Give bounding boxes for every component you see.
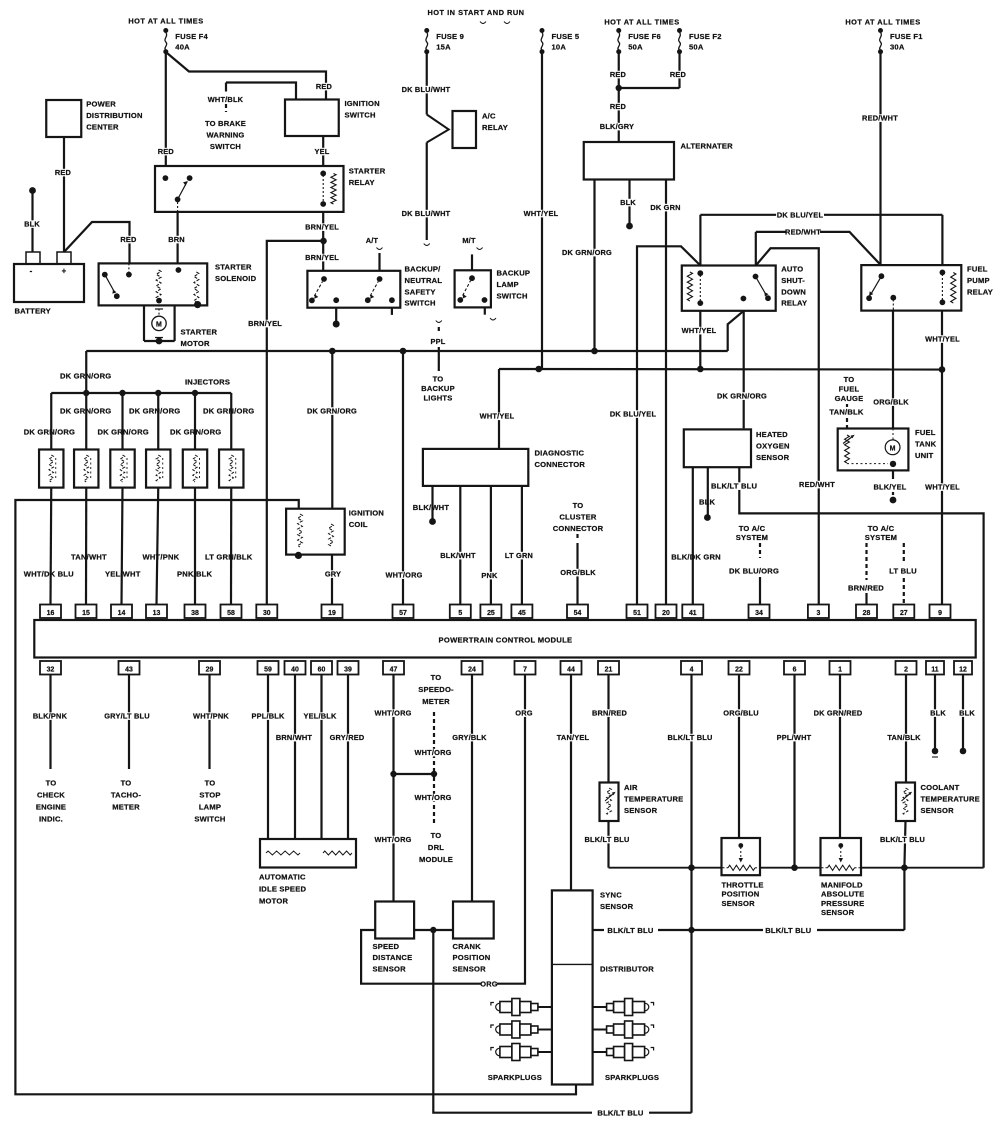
svg-text:DRL: DRL — [428, 843, 444, 852]
svg-text:POSITION: POSITION — [722, 890, 760, 899]
fuse F2 50A — [677, 28, 722, 54]
relay A/C RELAY — [453, 111, 509, 148]
svg-text:SPARKPLUGS: SPARKPLUGS — [605, 1073, 659, 1082]
fuse 5 10A — [540, 28, 580, 54]
svg-text:POWERTRAIN CONTROL MODULE: POWERTRAIN CONTROL MODULE — [439, 636, 573, 645]
svg-text:RED/WHT: RED/WHT — [785, 228, 821, 237]
svg-text:38: 38 — [191, 610, 199, 617]
svg-text:A/T: A/T — [366, 236, 379, 245]
wire WHT/YEL fuse 5 to WHT/YEL bus — [524, 52, 559, 369]
svg-text:21: 21 — [605, 666, 613, 673]
wire TAN/BLK pin 2 to coolant temperature sensor — [887, 675, 921, 783]
svg-text:BLK/LT BLU: BLK/LT BLU — [711, 482, 757, 491]
svg-text:DK BLU/WHT: DK BLU/WHT — [402, 209, 451, 218]
pin 25 (PCM top) — [480, 605, 501, 619]
svg-text:DISTRIBUTION: DISTRIBUTION — [86, 111, 142, 120]
svg-text:40: 40 — [291, 666, 299, 673]
svg-text:TAN/BLK: TAN/BLK — [829, 408, 863, 417]
wire BLK/WHT diagnostic connector ground — [413, 486, 450, 525]
wire BLK battery ground — [24, 187, 40, 252]
node TO CLUSTER CONNECTOR — [553, 501, 604, 540]
svg-text:WHT/ORG: WHT/ORG — [374, 709, 411, 718]
svg-text:PPL/BLK: PPL/BLK — [251, 712, 284, 721]
pin 20 (PCM top) — [656, 605, 677, 619]
pin 11 (PCM bottom) — [926, 661, 944, 675]
wire WHT/ORG pin 47 to speed distance sensor — [374, 675, 411, 902]
svg-text:TO: TO — [433, 375, 444, 384]
wire TAN/BLK to fuel tank unit — [829, 408, 863, 429]
svg-text:WHT/YEL: WHT/YEL — [480, 412, 515, 421]
svg-text:BLK/LT BLU: BLK/LT BLU — [585, 835, 630, 844]
wire GRY/BLK pin 24 to crank position sensor — [452, 675, 487, 902]
svg-text:LT BLU: LT BLU — [889, 567, 917, 576]
svg-text:WHT/ORG: WHT/ORG — [414, 793, 451, 802]
wire BLK alternator ground — [620, 180, 636, 230]
svg-text:AUTO: AUTO — [781, 265, 803, 274]
wire BRN/YEL starter relay to backup/neutral safety switch — [305, 212, 339, 271]
wire DK GRN/ORG to injector 5 — [170, 393, 221, 450]
pin 58 (PCM top) — [221, 605, 242, 619]
svg-text:YEL/WHT: YEL/WHT — [105, 570, 141, 579]
wire BLK oxygen sensor ground — [699, 467, 716, 521]
node TO FUEL GAUGE — [835, 375, 864, 407]
svg-text:TANK: TANK — [915, 439, 937, 448]
svg-text:GRY/LT BLU: GRY/LT BLU — [104, 712, 150, 721]
svg-text:DK GRN/ORG: DK GRN/ORG — [717, 392, 767, 401]
svg-text:BRN: BRN — [168, 235, 185, 244]
svg-text:DK GRN: DK GRN — [650, 203, 680, 212]
node TO DRL MODULE — [419, 831, 453, 864]
svg-text:SYSTEM: SYSTEM — [736, 533, 768, 542]
svg-text:RED: RED — [610, 102, 627, 111]
svg-text:GAUGE: GAUGE — [835, 394, 864, 403]
junction injector 2 — [83, 390, 89, 396]
svg-text:20: 20 — [662, 610, 670, 617]
svg-text:FUSE 9: FUSE 9 — [436, 32, 464, 41]
svg-text:BLK/WHT: BLK/WHT — [413, 503, 450, 512]
wire WHT/ORG to speedometer — [414, 712, 451, 771]
svg-text:40A: 40A — [175, 43, 190, 52]
junction BRN/YEL — [320, 238, 327, 245]
wire ORG/BLK to PCM pin 54 — [560, 543, 596, 605]
svg-text:DK BLU/YEL: DK BLU/YEL — [777, 210, 824, 219]
svg-text:11: 11 — [931, 666, 938, 673]
svg-text:IGNITION: IGNITION — [345, 99, 380, 108]
pin 45 (PCM top) — [511, 605, 532, 619]
pin 29 (PCM bottom) — [199, 661, 220, 675]
svg-text:2: 2 — [904, 666, 908, 673]
svg-text:COOLANT: COOLANT — [921, 783, 960, 792]
svg-text:WHT/DK BLU: WHT/DK BLU — [24, 570, 74, 579]
switch BACKUP/NEUTRAL SAFETY SWITCH — [307, 265, 442, 308]
wire BRN/YEL branch to PCM pin 30 — [248, 241, 324, 605]
wire WHT/ORG to DRL module — [414, 777, 451, 826]
svg-text:AUTOMATIC: AUTOMATIC — [259, 873, 306, 882]
wire ORG/BLU pin 22 to throttle position sensor — [723, 675, 758, 839]
motor STARTER MOTOR — [144, 301, 218, 348]
pin 22 (PCM bottom) — [729, 661, 750, 675]
svg-text:GRY/RED: GRY/RED — [330, 733, 365, 742]
svg-text:SPARKPLUGS: SPARKPLUGS — [488, 1073, 542, 1082]
pin 57 (PCM top) — [393, 605, 414, 619]
node TO A/C SYSTEM (BRN/RED, LT BLU) — [865, 524, 904, 580]
wire DK GRN/ORG ASD relay to heated oxygen sensor — [717, 311, 767, 429]
pin 39 (PCM bottom) — [338, 661, 359, 675]
junction rail2 pin 4 — [688, 927, 694, 933]
relay FUEL PUMP RELAY — [861, 265, 993, 311]
svg-text:SENSOR: SENSOR — [821, 908, 855, 917]
svg-text:PNK: PNK — [481, 571, 498, 580]
sparkplug left 1 — [491, 999, 552, 1016]
ignition coil — [286, 509, 384, 560]
distributor with sync sensor — [552, 890, 654, 1084]
svg-text:BLK/LT BLU: BLK/LT BLU — [668, 733, 713, 742]
sensor COOLANT TEMPERATURE SENSOR — [896, 783, 980, 822]
wire BLK/LT BLU air temp sensor to ground rail — [583, 821, 631, 868]
svg-text:WHT/ORG: WHT/ORG — [414, 748, 451, 757]
svg-text:BLK: BLK — [24, 220, 40, 229]
svg-text:60: 60 — [318, 666, 326, 673]
svg-text:TO: TO — [573, 501, 584, 510]
pin 28 (PCM top) — [856, 605, 877, 619]
alternator ALTERNATER — [584, 142, 733, 180]
wire injector 4 to PCM — [157, 488, 159, 605]
svg-text:TO: TO — [431, 673, 442, 682]
wire backup/neutral switch right stub — [391, 308, 393, 315]
svg-text:DISTRIBUTOR: DISTRIBUTOR — [600, 965, 654, 974]
wire DK BLU/WHT fuse 9 to A/C relay and M/T backup lamp switch — [402, 52, 451, 246]
sparkplug left 2 — [491, 1021, 552, 1038]
svg-text:SENSOR: SENSOR — [921, 806, 955, 815]
svg-text:WHT/YEL: WHT/YEL — [925, 335, 960, 344]
injector 4 — [146, 450, 170, 488]
svg-text:LT GRN: LT GRN — [505, 551, 533, 560]
svg-text:RELAY: RELAY — [482, 123, 508, 132]
svg-text:CHECK: CHECK — [37, 791, 65, 800]
svg-text:34: 34 — [755, 610, 763, 617]
svg-text:SENSOR: SENSOR — [624, 806, 658, 815]
svg-text:LAMP: LAMP — [497, 280, 519, 289]
svg-text:MODULE: MODULE — [419, 855, 453, 864]
svg-text:FUSE F6: FUSE F6 — [628, 32, 661, 41]
svg-text:BLK/WHT: BLK/WHT — [440, 551, 476, 560]
svg-text:POSITION: POSITION — [453, 953, 491, 962]
svg-text:19: 19 — [328, 610, 336, 617]
sensor HEATED OXYGEN SENSOR — [684, 429, 790, 467]
node HOT AT ALL TIMES (fuse F1) — [845, 18, 920, 27]
pin 1 (PCM bottom) — [830, 661, 851, 675]
svg-text:WHT/ORG: WHT/ORG — [374, 835, 411, 844]
pin 12 (PCM bottom) — [954, 661, 972, 675]
svg-text:BACKUP: BACKUP — [421, 384, 455, 393]
svg-text:SENSOR: SENSOR — [373, 964, 407, 973]
junction bus A to alternator — [591, 348, 598, 355]
svg-text:41: 41 — [689, 610, 697, 617]
svg-text:PUMP: PUMP — [967, 276, 990, 285]
wire BLK/WHT diagnostic connector to PCM pin 5 — [440, 486, 476, 605]
svg-text:M/T: M/T — [462, 236, 476, 245]
svg-text:TO: TO — [46, 779, 57, 788]
fuse F4 40A — [163, 28, 208, 54]
svg-text:ENGINE: ENGINE — [36, 803, 66, 812]
svg-text:TEMPERATURE: TEMPERATURE — [624, 794, 683, 803]
wire BLK/LT BLU distributor ground rail — [593, 868, 905, 935]
wire DK GRN/ORG bus — [86, 351, 727, 393]
wire speed/crank sensor link — [414, 929, 453, 931]
pin 60 (PCM bottom) — [311, 661, 332, 675]
wire GRY/LT BLU pin 43 to tachometer — [103, 675, 151, 770]
svg-text:FUSE F1: FUSE F1 — [890, 32, 923, 41]
svg-text:YEL: YEL — [315, 147, 330, 156]
svg-text:15A: 15A — [436, 43, 451, 52]
svg-text:DK GRN/ORG: DK GRN/ORG — [562, 248, 612, 257]
wire injector 2 to PCM — [85, 488, 87, 605]
svg-text:RED: RED — [55, 168, 72, 177]
svg-text:5: 5 — [458, 610, 462, 617]
wire DK GRN/ORG to injector 4 — [129, 393, 180, 450]
svg-text:CENTER: CENTER — [86, 122, 119, 131]
svg-text:FUEL: FUEL — [967, 265, 988, 274]
junction rail pin 6 — [791, 864, 798, 871]
wire PPL/WHT pin 6 to ground rail — [777, 675, 812, 868]
svg-text:OXYGEN: OXYGEN — [756, 441, 790, 450]
sensor MANIFOLD ABSOLUTE PRESSURE SENSOR — [821, 838, 865, 917]
node TO TACHOMETER — [111, 779, 141, 812]
wire RED/WHT fuse F1 to fuel pump relay — [862, 52, 898, 265]
wire WHT/ORG bus A to PCM pin 57 — [385, 351, 422, 605]
fuse F6 50A — [616, 28, 661, 54]
pin 32 (PCM bottom) — [40, 661, 61, 675]
svg-text:RED: RED — [120, 235, 137, 244]
svg-text:INDIC.: INDIC. — [39, 815, 63, 824]
relay STARTER RELAY — [155, 166, 386, 212]
svg-text:MOTOR: MOTOR — [259, 897, 288, 906]
svg-text:DK GRN/ORG: DK GRN/ORG — [307, 407, 357, 416]
injector 5 — [183, 450, 207, 488]
svg-text:DK GRN/ORG: DK GRN/ORG — [129, 407, 180, 416]
battery — [14, 252, 84, 316]
svg-text:47: 47 — [390, 666, 398, 673]
wire WHT/YEL bus — [499, 369, 942, 449]
fuse 9 15A — [424, 28, 464, 54]
svg-text:DK BLU/WHT: DK BLU/WHT — [402, 85, 451, 94]
sensor SPEED DISTANCE SENSOR — [373, 902, 415, 974]
junction bus B fuse 5 — [535, 366, 542, 373]
svg-text:SWITCH: SWITCH — [345, 110, 376, 119]
connector DIAGNOSTIC CONNECTOR — [423, 449, 586, 486]
svg-text:TAN/WHT: TAN/WHT — [71, 553, 107, 562]
wire DK GRN/ORG to injector 6 — [203, 393, 254, 450]
label injector wire colors — [24, 553, 253, 579]
svg-text:BLK/LT BLU: BLK/LT BLU — [607, 926, 653, 935]
svg-text:RED: RED — [670, 70, 687, 79]
svg-text:30A: 30A — [890, 43, 905, 52]
wire RED PDC to battery — [55, 137, 72, 252]
svg-text:CLUSTER: CLUSTER — [559, 512, 597, 521]
wire RED / BLK-GRY junction to alternator — [600, 88, 634, 142]
svg-text:DK GRN/ORG: DK GRN/ORG — [24, 428, 75, 437]
svg-text:FUSE F2: FUSE F2 — [689, 32, 722, 41]
svg-text:CRANK: CRANK — [453, 942, 482, 951]
wire DK GRN/ORG to injector 3 — [98, 393, 149, 450]
pin 3 (PCM top) — [808, 605, 829, 619]
wire DK BLU/YEL rail (ASD relay to fuel pump relay) — [700, 210, 942, 265]
svg-text:29: 29 — [206, 666, 214, 673]
solenoid STARTER SOLENOID — [99, 263, 257, 309]
svg-text:STARTER: STARTER — [215, 263, 252, 272]
svg-text:WHT/PNK: WHT/PNK — [143, 553, 180, 562]
svg-text:BLK/GRY: BLK/GRY — [600, 122, 634, 131]
wire RED fuse F6 — [610, 52, 627, 88]
label SPARKPLUGS left — [488, 1073, 542, 1082]
svg-text:DK GRN/ORG: DK GRN/ORG — [60, 407, 111, 416]
wire ORG pin 7 to speed distance sensor — [361, 675, 533, 989]
wire backup/neutral switch ground stub — [333, 308, 340, 328]
svg-text:RELAY: RELAY — [781, 299, 807, 308]
svg-text:1: 1 — [838, 666, 842, 673]
svg-text:45: 45 — [518, 610, 526, 617]
junction injector 3 — [119, 390, 125, 396]
svg-text:FUSE 5: FUSE 5 — [552, 32, 580, 41]
svg-text:BLK: BLK — [959, 709, 975, 718]
svg-text:DK GRN/ORG: DK GRN/ORG — [203, 407, 254, 416]
pin 59 (PCM bottom) — [258, 661, 279, 675]
pin 21 (PCM bottom) — [598, 661, 619, 675]
junction rail pin 4 — [688, 864, 695, 871]
pin 30 (PCM top) — [256, 605, 277, 619]
sparkplug right 1 — [593, 999, 654, 1016]
pin 2 (PCM bottom) — [896, 661, 917, 675]
svg-text:WHT/YEL: WHT/YEL — [524, 209, 559, 218]
svg-text:54: 54 — [574, 610, 582, 617]
fuse F1 30A — [878, 28, 923, 54]
svg-text:TACHO-: TACHO- — [111, 791, 141, 800]
svg-text:28: 28 — [863, 610, 871, 617]
wire WHT/YEL fuel pump relay to WHT/YEL bus and PCM pin 9 — [925, 311, 960, 605]
svg-text:TEMPERATURE: TEMPERATURE — [921, 794, 980, 803]
wire YEL/BLK pin 60 to AIS motor — [303, 675, 337, 840]
wire BLK/LT BLU coolant sensor to ground rail — [879, 821, 927, 868]
svg-text:BLK: BLK — [930, 709, 946, 718]
svg-text:39: 39 — [344, 666, 352, 673]
wire DK BLU/YEL ASD relay to PCM pin 51 — [609, 246, 700, 604]
svg-text:12: 12 — [959, 666, 967, 673]
svg-text:IGNITION: IGNITION — [349, 509, 384, 518]
svg-text:SENSOR: SENSOR — [722, 899, 756, 908]
node TO STOP LAMP SWITCH — [194, 779, 225, 824]
svg-text:HOT IN START AND RUN: HOT IN START AND RUN — [427, 8, 524, 17]
wire BLK/DK GRN oxygen sensor to PCM pin 41 — [671, 467, 721, 604]
pin 19 (PCM top) — [322, 605, 343, 619]
svg-text:RED: RED — [610, 70, 627, 79]
wire injector 1 to PCM — [49, 488, 52, 605]
svg-text:HOT AT ALL TIMES: HOT AT ALL TIMES — [128, 17, 203, 26]
svg-text:50A: 50A — [689, 43, 704, 52]
svg-text:FUSE F4: FUSE F4 — [175, 32, 208, 41]
svg-text:BATTERY: BATTERY — [15, 307, 51, 316]
svg-text:HOT AT ALL TIMES: HOT AT ALL TIMES — [845, 18, 920, 27]
svg-text:DK GRN/ORG: DK GRN/ORG — [98, 428, 149, 437]
svg-text:4: 4 — [690, 666, 694, 673]
svg-text:FUEL: FUEL — [839, 385, 860, 394]
wire WHT/YEL bus B to diagnostic connector — [480, 412, 515, 421]
svg-text:MOTOR: MOTOR — [181, 339, 210, 348]
svg-text:RELAY: RELAY — [349, 178, 375, 187]
svg-text:9: 9 — [938, 610, 942, 617]
svg-text:TO A/C: TO A/C — [868, 524, 895, 533]
pin 7 (PCM bottom) — [515, 661, 536, 675]
svg-text:WHT/BLK: WHT/BLK — [208, 95, 244, 104]
svg-text:ABSOLUTE: ABSOLUTE — [821, 890, 864, 899]
svg-text:SWITCH: SWITCH — [210, 142, 241, 151]
svg-text:43: 43 — [125, 666, 133, 673]
svg-text:32: 32 — [47, 666, 55, 673]
pin 40 (PCM bottom) — [285, 661, 306, 675]
node A/T — [366, 236, 383, 271]
svg-text:57: 57 — [399, 610, 407, 617]
svg-text:BRN/YEL: BRN/YEL — [305, 223, 339, 232]
wire DK GRN/ORG to injector 2 — [60, 393, 111, 450]
junction fuse F6/F2 — [616, 85, 622, 91]
svg-text:BLK/LT BLU: BLK/LT BLU — [765, 926, 811, 935]
pin 27 (PCM top) — [893, 605, 914, 619]
svg-text:SENSOR: SENSOR — [600, 902, 634, 911]
wire ignition coil to distributor (left loop) — [15, 500, 576, 1094]
svg-text:SPEED: SPEED — [373, 942, 400, 951]
svg-text:15: 15 — [82, 610, 90, 617]
svg-text:TO: TO — [844, 375, 855, 384]
wire YEL ignition switch to starter relay coil — [314, 136, 330, 166]
wire TAN/YEL pin 44 to sync sensor — [556, 675, 590, 891]
svg-text:10A: 10A — [552, 43, 567, 52]
svg-text:INJECTORS: INJECTORS — [185, 378, 230, 387]
svg-text:SHUT-: SHUT- — [781, 276, 805, 285]
svg-text:SYNC: SYNC — [600, 891, 622, 900]
svg-text:STARTER: STARTER — [181, 328, 218, 337]
wire GRY ignition coil to PCM pin 19 — [325, 555, 341, 605]
wire BLK/LT BLU pin 4 to ground rails — [666, 675, 714, 1113]
svg-text:16: 16 — [47, 610, 55, 617]
svg-text:CONNECTOR: CONNECTOR — [553, 524, 604, 533]
wire BRN/RED to PCM pin 28 — [848, 584, 884, 605]
pin 44 (PCM bottom) — [561, 661, 582, 675]
svg-text:BRN/RED: BRN/RED — [592, 709, 628, 718]
wire PNK diagnostic connector to PCM pin 25 — [481, 486, 498, 605]
svg-text:PRESSURE: PRESSURE — [821, 899, 864, 908]
svg-text:TAN/YEL: TAN/YEL — [557, 733, 590, 742]
svg-text:AIR: AIR — [624, 783, 638, 792]
junction bus B ASD relay — [697, 366, 704, 373]
svg-text:SOLENOID: SOLENOID — [215, 274, 257, 283]
svg-text:ORG/BLK: ORG/BLK — [873, 398, 909, 407]
node TO BACKUP LIGHTS — [421, 375, 455, 403]
svg-text:58: 58 — [227, 610, 235, 617]
junction injector 5 — [192, 390, 198, 396]
pin 4 (PCM bottom) — [681, 661, 702, 675]
wire LT BLU to PCM pin 27 — [889, 567, 917, 605]
svg-text:ORG: ORG — [515, 709, 532, 718]
svg-text:DK GRN/RED: DK GRN/RED — [814, 709, 863, 718]
svg-text:HOT AT ALL TIMES: HOT AT ALL TIMES — [604, 18, 679, 27]
wire BRN starter relay to starter solenoid — [168, 212, 185, 264]
svg-text:MANIFOLD: MANIFOLD — [821, 881, 863, 890]
svg-text:STOP: STOP — [199, 791, 220, 800]
svg-text:GRY: GRY — [325, 570, 341, 579]
node TO A/C SYSTEM (DK BLU/ORG) — [736, 524, 768, 558]
wire injector 6 to PCM — [230, 488, 232, 605]
wire LT GRN diagnostic connector to PCM pin 45 — [504, 486, 534, 605]
svg-text:A/C: A/C — [482, 112, 496, 121]
